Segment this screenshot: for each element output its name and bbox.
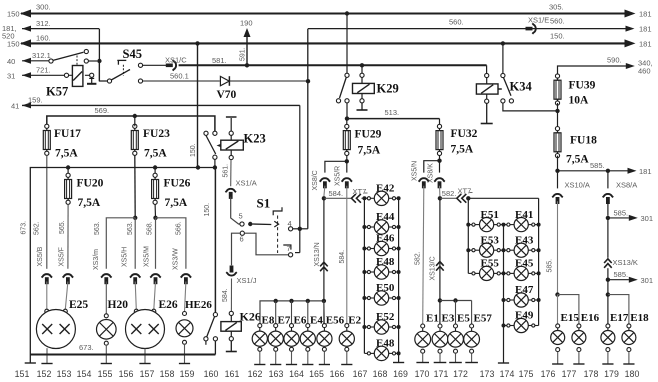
wire to XS8/K (439, 161, 441, 173)
label wire 590 (607, 56, 622, 65)
svg-text:150.: 150. (550, 32, 565, 41)
svg-text:170: 170 (415, 369, 430, 379)
wire E5 E57 feed (440, 300, 472, 302)
node FU23 feed (133, 114, 137, 118)
fuse FU26 (152, 168, 159, 205)
svg-text:XS8/C: XS8/C (312, 170, 319, 190)
wire XS3/m to H20 (105, 282, 107, 314)
label 301 b (641, 276, 654, 285)
wire to XS5/N (424, 161, 440, 173)
svg-text:XS13/N: XS13/N (314, 242, 321, 266)
svg-text:E4: E4 (310, 315, 323, 327)
svg-text:XT7: XT7 (458, 187, 472, 196)
label 340 460 (638, 59, 653, 76)
svg-text:153: 153 (57, 369, 72, 379)
node E row 275.7 (274, 299, 278, 303)
node S1 pin5 (248, 222, 252, 226)
label K26 (240, 310, 261, 324)
label XS5/R rotated (335, 166, 342, 186)
wire FU26 down (154, 204, 156, 218)
svg-text:566.: 566. (176, 221, 183, 235)
lamp E7 (268, 324, 283, 365)
label E16 (581, 312, 600, 324)
node 584 junction (322, 196, 326, 200)
label XS5/B rotated (37, 246, 44, 266)
svg-text:XS13/C: XS13/C (430, 256, 437, 280)
label E5 (457, 313, 470, 325)
svg-text:XS5/H: XS5/H (122, 247, 129, 267)
connector XS5/H (130, 274, 141, 284)
wire E2 drop (346, 325, 348, 327)
svg-text:175: 175 (519, 369, 534, 379)
wire ladder right rail (393, 196, 404, 362)
label K34 (510, 80, 533, 94)
lamp E5 (448, 324, 464, 363)
svg-text:156: 156 (119, 369, 134, 379)
wire XS5/H to E26 (135, 282, 136, 310)
svg-text:FU23: FU23 (143, 128, 170, 140)
wire 159 vertical to S1 (295, 105, 300, 252)
lamp E16 (572, 324, 586, 364)
label S45 (123, 47, 142, 61)
svg-text:673.: 673. (79, 343, 94, 352)
node 312 junction (97, 59, 101, 63)
svg-text:312.1: 312.1 (32, 51, 51, 60)
svg-text:569.: 569. (95, 106, 110, 115)
ground K34 coil (481, 103, 493, 123)
label wire 582 h (442, 189, 457, 198)
svg-text:E3: E3 (442, 313, 455, 325)
label E55 (481, 258, 500, 270)
label E26 (159, 299, 178, 311)
node E15 branch (555, 292, 559, 296)
svg-text:K34: K34 (510, 80, 533, 94)
svg-text:7,5A: 7,5A (78, 197, 101, 209)
svg-text:FU32: FU32 (451, 128, 478, 140)
wire S45 feed corner (99, 61, 107, 81)
node 585 tap2 (606, 278, 610, 282)
S1 jumper 6 to 7 (245, 233, 289, 255)
wire 300/305 top rail (20, 10, 636, 18)
svg-text:XS8/A: XS8/A (616, 181, 637, 190)
svg-text:162: 162 (248, 369, 263, 379)
svg-text:E42: E42 (376, 183, 395, 195)
wire to XS5/H (134, 218, 136, 269)
label K23 (244, 132, 266, 146)
switch S45 (107, 63, 142, 83)
svg-text:673.: 673. (21, 221, 28, 235)
label XS13/N rotated (314, 242, 321, 266)
node FU26 feed (153, 165, 157, 169)
label FU17 (54, 128, 81, 160)
node 560 junction (306, 79, 310, 83)
label 181 top right (639, 10, 652, 19)
wire FU18 out (557, 156, 559, 171)
svg-text:E25: E25 (69, 299, 88, 311)
relay K23 coil (221, 117, 244, 160)
node FU39 out (555, 109, 559, 113)
label XS8/C rotated (312, 170, 319, 190)
label XS5/H rotated (122, 247, 129, 267)
svg-text:300.: 300. (36, 3, 51, 12)
svg-text:150.: 150. (204, 203, 211, 217)
label 181 at 560 arrow (639, 25, 652, 34)
svg-text:585.: 585. (614, 208, 629, 217)
svg-text:K57: K57 (46, 85, 68, 99)
lamp E1 (415, 324, 431, 363)
node FU20 feed (66, 165, 70, 169)
svg-text:XT7: XT7 (353, 187, 367, 196)
label FU20 (77, 178, 104, 210)
label E48 (376, 256, 395, 268)
terminal 157 (139, 363, 150, 365)
svg-text:E52: E52 (376, 311, 395, 323)
wire 312 segment (22, 26, 99, 32)
label 41 (11, 101, 19, 110)
node FU23 split (133, 216, 137, 220)
label FU29 (355, 129, 382, 157)
connector XS13/K chevrons (604, 259, 612, 268)
wire ladder left rail (362, 196, 366, 353)
svg-text:E2: E2 (348, 315, 361, 327)
connector XS10/A (552, 173, 563, 204)
label wire 563b rotated (127, 221, 134, 235)
svg-text:190: 190 (240, 19, 253, 28)
label wire 584 rotated E2 (339, 250, 346, 264)
wire 560 top segment (308, 26, 635, 32)
svg-text:568.: 568. (147, 221, 154, 235)
wire E4 drop (307, 301, 309, 326)
connector XS5/B (42, 274, 53, 284)
wire FU17 to XS5/B (46, 155, 48, 268)
wire 721 line (22, 72, 64, 78)
label E50 (376, 282, 395, 294)
S1 blade pole1 (253, 223, 272, 226)
wire FU23 down (134, 155, 136, 218)
wire XS8/A down (607, 201, 609, 215)
wire K23 feed drop (197, 43, 199, 167)
label K57 (46, 85, 68, 99)
wire ladder2 mid rail (498, 223, 509, 363)
connector XS5/N (419, 178, 430, 188)
lamp E48 (364, 346, 398, 360)
wire S45 to XS1/C (143, 64, 166, 66)
wire 581 (179, 64, 487, 66)
lamp E46 (364, 241, 398, 255)
label wire 585 a (590, 161, 605, 170)
wire 585 tap1 arrow (608, 215, 638, 221)
ground K57 (87, 77, 96, 83)
label FU18 (566, 135, 597, 166)
K34 actuation link (498, 88, 502, 90)
node E17 branch (606, 292, 610, 296)
lamp E6 (284, 324, 299, 365)
label E4 (310, 315, 323, 327)
lamp E48 (364, 265, 398, 279)
svg-text:150: 150 (7, 40, 20, 49)
label XS13/K (613, 258, 638, 267)
label wire 673 (79, 343, 94, 352)
wire E15 drop (557, 295, 559, 324)
svg-text:E51: E51 (481, 209, 499, 221)
svg-text:582.: 582. (415, 251, 422, 265)
label E53 (481, 234, 500, 246)
S1 pin 5 (239, 212, 245, 227)
label wire 585 c (614, 270, 629, 279)
node K23 feed junction (195, 41, 199, 45)
lamp E26 (126, 309, 165, 348)
svg-text:177: 177 (562, 369, 577, 379)
svg-text:XS1/C: XS1/C (165, 56, 187, 65)
S1 pin 6 (240, 231, 245, 243)
svg-text:V70: V70 (217, 89, 237, 101)
connector XT7 right (457, 194, 467, 203)
S45 actuator (117, 60, 126, 76)
svg-text:168: 168 (373, 369, 388, 379)
wire 584 horiz (324, 197, 351, 199)
svg-text:E7: E7 (278, 315, 291, 327)
label E3 (442, 313, 455, 325)
label E15 (561, 312, 580, 324)
label E17 (610, 312, 629, 324)
wire K29 feed drop (346, 14, 348, 74)
wire K34 out (503, 103, 558, 111)
wire E18 branch (608, 295, 629, 324)
connector XT7 left (351, 194, 361, 203)
S1 bracket pole1 (273, 207, 282, 215)
label XS10/A (565, 181, 590, 190)
label HE26 (185, 299, 212, 311)
label wire 721 (36, 66, 51, 75)
svg-text:41: 41 (11, 101, 19, 110)
svg-text:301: 301 (641, 276, 654, 285)
svg-text:XS13/K: XS13/K (613, 258, 638, 267)
wire XT7 to ladder2 (467, 197, 469, 199)
wire 690 (558, 63, 635, 74)
svg-text:XS3/m: XS3/m (93, 249, 100, 270)
label XS8/A (616, 181, 637, 190)
label wire 566 rotated (176, 221, 183, 235)
svg-text:E18: E18 (630, 312, 649, 324)
wire 560.1 (143, 80, 220, 82)
lamp box top line (30, 168, 215, 355)
label 181 520 left (2, 24, 17, 41)
lamp E25 (36, 309, 75, 348)
label wire 561 rotated (223, 164, 230, 178)
terminal 151 (25, 355, 36, 364)
svg-text:XS3/W: XS3/W (173, 248, 180, 270)
ground K29 coil (357, 103, 368, 110)
node FU26 split (153, 216, 157, 220)
svg-text:FU29: FU29 (355, 129, 382, 141)
svg-text:5: 5 (239, 212, 243, 221)
svg-text:E17: E17 (610, 312, 629, 324)
label wire 582 rotated E1 (415, 251, 422, 265)
label 190 (240, 19, 253, 28)
svg-text:E44: E44 (376, 211, 395, 223)
wire to XS5/M (155, 218, 157, 269)
wire 560 vertical (307, 29, 309, 229)
relay K29 switch (336, 73, 349, 118)
svg-text:4: 4 (288, 219, 292, 228)
svg-text:S1: S1 (257, 196, 271, 211)
K23 actuation arrow (217, 144, 222, 148)
relay K23 switch (204, 131, 217, 167)
label E25 (69, 299, 88, 311)
lamp H20 (97, 314, 117, 345)
wire FU20 to XS5/F (67, 204, 69, 268)
svg-text:312.: 312. (36, 19, 51, 28)
wire 585 out (558, 168, 637, 174)
label 560 right (550, 17, 565, 26)
svg-text:173: 173 (480, 369, 495, 379)
svg-text:159.: 159. (28, 96, 43, 105)
label H20 (108, 299, 129, 311)
svg-text:K23: K23 (244, 132, 266, 146)
svg-text:XS1/A: XS1/A (236, 179, 257, 188)
S1 moving tip (274, 221, 278, 227)
label 181 right rail2 (639, 40, 652, 49)
label E52 (376, 311, 395, 323)
label wire 569 (95, 106, 110, 115)
label E47 (515, 284, 534, 296)
node junction K29 feed on top rail (345, 11, 349, 15)
wire XS1/J riser (232, 233, 241, 265)
wire 673 bus (30, 353, 215, 355)
label 301 a (641, 214, 654, 223)
lamp E17 (601, 324, 615, 364)
mech link dashed K57 (76, 56, 78, 66)
svg-text:7,5A: 7,5A (165, 197, 188, 209)
svg-text:E5: E5 (457, 313, 470, 325)
svg-text:178: 178 (584, 369, 599, 379)
svg-text:E41: E41 (515, 209, 533, 221)
wire XS13/K down (607, 268, 609, 294)
label E8 (262, 315, 275, 327)
wire to XS13/K (607, 218, 609, 258)
lamp E8 (252, 324, 267, 365)
wire E57 drop (471, 301, 473, 325)
fuse FU20 (65, 168, 72, 205)
svg-text:E49: E49 (515, 310, 534, 322)
svg-text:E26: E26 (159, 299, 178, 311)
wire 312 vertical drop (98, 29, 100, 81)
svg-text:10A: 10A (569, 95, 590, 107)
S1 bracket pole2 (283, 245, 291, 250)
node XS8/A branch (606, 169, 610, 173)
label wire 312.1 (32, 51, 51, 60)
lamp E2 (339, 324, 354, 365)
svg-text:K26: K26 (240, 310, 261, 324)
svg-text:565.: 565. (59, 220, 66, 234)
svg-text:7,5A: 7,5A (144, 148, 167, 160)
connector XS1/J (226, 266, 237, 276)
svg-text:179: 179 (604, 369, 619, 379)
label wire 584 h (329, 189, 344, 198)
label XS1/J (237, 276, 257, 285)
bottom grid numbers 151-180 (15, 369, 640, 379)
svg-text:174: 174 (500, 369, 515, 379)
label K29 (377, 82, 399, 96)
svg-text:585.: 585. (614, 270, 629, 279)
svg-text:581.: 581. (212, 56, 227, 65)
node 513 junction (345, 116, 349, 120)
label FU23 (143, 128, 170, 160)
label 31 (7, 71, 15, 80)
svg-text:E47: E47 (515, 284, 534, 296)
label wire 673 rotated (21, 221, 28, 235)
wire E6 drop (291, 301, 293, 326)
label wire 159 (28, 96, 43, 105)
svg-text:FU18: FU18 (570, 135, 597, 147)
lamp E4 (300, 324, 315, 365)
node 585 tap1 (606, 216, 610, 220)
svg-text:E50: E50 (376, 282, 395, 294)
label XS5/M rotated (144, 246, 151, 267)
wire ladder2 right rail (537, 198, 541, 325)
wire 150/160 rail (20, 39, 636, 47)
lamp E56 (317, 324, 332, 365)
label XS1/A (236, 179, 257, 188)
svg-text:H20: H20 (108, 299, 129, 311)
svg-text:164: 164 (289, 369, 304, 379)
svg-text:XS5/B: XS5/B (37, 246, 44, 266)
S1 pin 4 (288, 219, 293, 231)
svg-text:171: 171 (434, 369, 449, 379)
node 591 junction (245, 63, 249, 67)
label E46 (376, 233, 395, 245)
svg-text:7,5A: 7,5A (55, 148, 78, 160)
label XS3/W rotated (173, 248, 180, 270)
label XS13/C rotated (430, 256, 437, 280)
node FU32 split (437, 156, 441, 163)
lamp E43 (504, 243, 539, 257)
S1 pin 7 (287, 244, 293, 257)
svg-text:XS10/A: XS10/A (565, 181, 590, 190)
switch contact parking (49, 49, 97, 63)
label wire 560 mid (449, 18, 464, 27)
svg-text:XS5/M: XS5/M (144, 246, 151, 267)
svg-text:560.1: 560.1 (170, 71, 189, 80)
label XS3/m rotated (93, 249, 100, 270)
lamp E53 (468, 243, 502, 257)
label 305 right (549, 3, 564, 12)
wire XS8/K tail (439, 186, 441, 197)
connector XS5/F (63, 274, 74, 284)
label wire 160 (36, 34, 51, 43)
connector XS13/N chevrons (320, 262, 328, 271)
svg-text:513.: 513. (385, 108, 400, 117)
svg-text:591.: 591. (240, 47, 247, 61)
node FU18 out (555, 169, 559, 173)
label wire 562 rotated (34, 221, 41, 235)
lamp E44 (364, 220, 398, 234)
label 181 at 585 (639, 167, 652, 176)
svg-text:167: 167 (353, 369, 368, 379)
fuse FU17 (43, 124, 50, 155)
svg-text:161: 161 (225, 369, 240, 379)
wire XS13/N (323, 198, 325, 326)
svg-text:XS5/N: XS5/N (412, 161, 419, 181)
lamp HE26 (176, 312, 193, 345)
svg-text:XS5/F: XS5/F (59, 247, 66, 266)
node E row 323.9 (322, 299, 326, 303)
node E3 feed (438, 298, 442, 302)
node 150 drop joins (196, 165, 217, 169)
wire K26 feed drop (214, 168, 216, 313)
svg-text:7,5A: 7,5A (451, 144, 474, 156)
lamp E50 (364, 291, 398, 305)
